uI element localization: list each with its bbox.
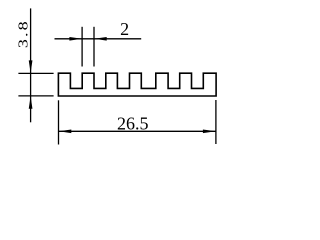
svg-text:2: 2 (120, 19, 129, 39)
svg-text:26.5: 26.5 (117, 114, 149, 134)
svg-text:3.8: 3.8 (16, 21, 31, 48)
